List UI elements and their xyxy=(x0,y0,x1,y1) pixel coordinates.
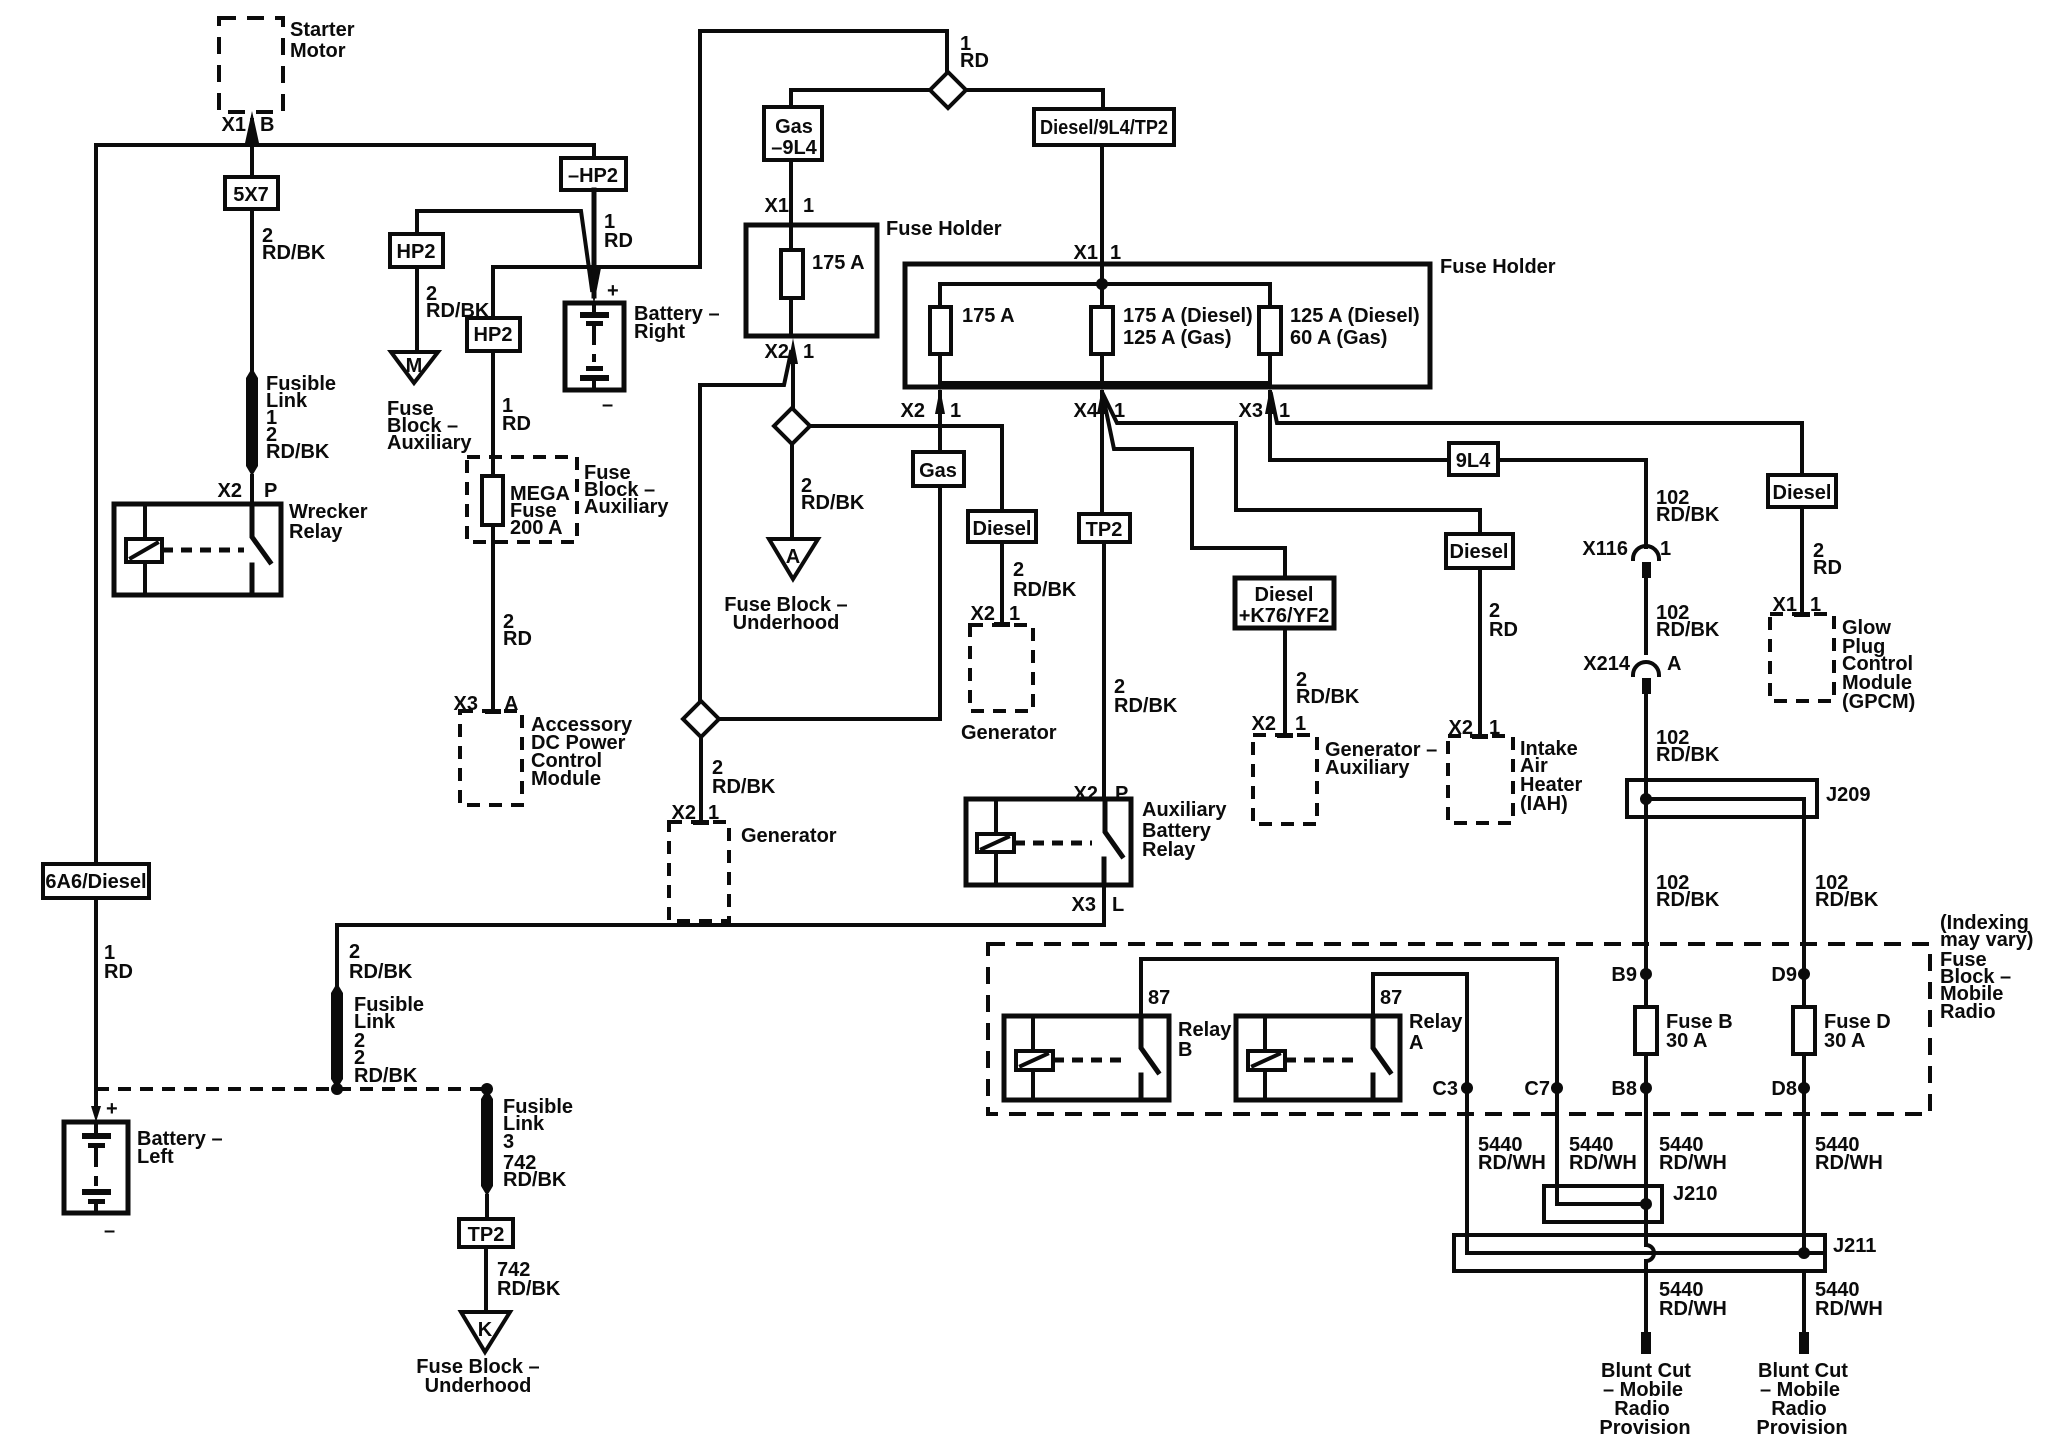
svg-text:1: 1 xyxy=(803,341,814,363)
svg-text:Diesel: Diesel xyxy=(1450,541,1509,563)
fuse 175 A Diesel / 125 A Gas middle xyxy=(1091,305,1253,387)
svg-text:Relay: Relay xyxy=(1178,1019,1232,1041)
svg-text:175 A: 175 A xyxy=(962,305,1015,327)
svg-text:HP2: HP2 xyxy=(474,324,513,346)
svg-text:–HP2: –HP2 xyxy=(568,165,618,187)
svg-text:Fuse Holder: Fuse Holder xyxy=(886,218,1002,240)
svg-text:Relay: Relay xyxy=(289,521,343,543)
svg-text:J210: J210 xyxy=(1673,1183,1718,1205)
fusible link 2 xyxy=(331,983,424,1089)
wire label 2 RD/BK xyxy=(349,941,413,983)
module Glow Plug Control Module GPCM xyxy=(1770,612,1915,713)
wire HP2 top to battery right positive xyxy=(417,211,592,290)
svg-text:B9: B9 xyxy=(1611,964,1637,986)
svg-text:125 A (Gas): 125 A (Gas) xyxy=(1123,327,1232,349)
wire from bus down to 5X7 xyxy=(250,145,254,177)
wire X4 branch to Diesel intake air heater xyxy=(1103,394,1480,534)
node X1 1 of big fuse holder xyxy=(1074,242,1122,264)
wire 2 RD/BK diamond to generator lower xyxy=(701,737,776,820)
node X3 A xyxy=(454,693,519,715)
svg-text:Diesel/9L4/TP2: Diesel/9L4/TP2 xyxy=(1040,117,1168,139)
connector TP2 xyxy=(1079,514,1130,542)
wire branch jog from X2 pin left to riser xyxy=(700,352,791,702)
fuse holder big with three fuses xyxy=(905,256,1556,387)
node splice diamond top right xyxy=(930,33,989,108)
svg-text:RD/BK: RD/BK xyxy=(1013,579,1077,601)
node battery-left positive arrow xyxy=(91,1106,101,1122)
svg-text:B: B xyxy=(260,114,274,136)
module Accessory DC Power Control Module xyxy=(460,709,633,805)
wire 2 RD Diesel to IAH xyxy=(1480,568,1518,736)
terminal triangle A Fuse Block Underhood xyxy=(724,539,847,634)
svg-text:K: K xyxy=(478,1319,493,1341)
svg-text:30 A: 30 A xyxy=(1824,1030,1866,1052)
svg-text:B: B xyxy=(1178,1039,1192,1061)
svg-text:X116: X116 xyxy=(1582,538,1628,560)
svg-text:9L4: 9L4 xyxy=(1456,450,1491,472)
connector 5X7 xyxy=(225,177,278,209)
svg-text:87: 87 xyxy=(1148,987,1170,1009)
svg-text:+: + xyxy=(106,1098,118,1120)
svg-text:X214: X214 xyxy=(1583,653,1631,675)
wire 2 RD/BK from 5X7 to fusible link 1 xyxy=(252,209,326,372)
svg-text:–9L4: –9L4 xyxy=(771,137,817,159)
wire fuse holder X2 pin with up arrow down to diamond xyxy=(788,338,798,408)
svg-text:B8: B8 xyxy=(1611,1078,1637,1100)
wire 2 RD from MEGA fuse to module xyxy=(493,525,532,711)
node C7 xyxy=(1524,1078,1563,1100)
splice J210 xyxy=(1544,1183,1718,1222)
svg-text:RD/WH: RD/WH xyxy=(1569,1152,1637,1174)
svg-text:6A6/Diesel: 6A6/Diesel xyxy=(45,871,146,893)
svg-text:Relay: Relay xyxy=(1409,1011,1463,1033)
wire 102 RD/BK J209 to B9 xyxy=(1646,817,1720,974)
connector HP2 first xyxy=(390,234,443,267)
svg-text:RD: RD xyxy=(1813,557,1842,579)
svg-text:Wrecker: Wrecker xyxy=(289,501,368,523)
svg-text:RD/WH: RD/WH xyxy=(1659,1152,1727,1174)
svg-text:X2: X2 xyxy=(765,341,789,363)
svg-text:Auxiliary: Auxiliary xyxy=(1325,757,1410,779)
svg-text:X4: X4 xyxy=(1074,400,1099,422)
svg-text:2: 2 xyxy=(349,941,360,963)
node junction dot on bus xyxy=(1096,278,1108,290)
wire 2 RD/BK TP2 down to auxiliary battery relay xyxy=(1104,542,1178,799)
wire relay X3 down and left to fusible link 2 xyxy=(337,885,1104,985)
svg-text:RD: RD xyxy=(1489,619,1518,641)
connector Diesel +K76/YF2 xyxy=(1235,578,1334,628)
wire starter pin riser with up arrow xyxy=(245,111,259,145)
svg-text:A: A xyxy=(786,546,800,568)
relay Relay A xyxy=(1236,1011,1463,1100)
svg-text:Left: Left xyxy=(137,1146,174,1168)
svg-text:C3: C3 xyxy=(1432,1078,1458,1100)
svg-text:P: P xyxy=(264,480,277,502)
node X1 1 of GPCM xyxy=(1773,594,1822,616)
svg-text:RD: RD xyxy=(604,230,633,252)
module Intake Air Heater IAH xyxy=(1448,734,1582,823)
wire X2 pin down through Gas to corner xyxy=(719,392,940,719)
node splice diamond left xyxy=(683,701,719,737)
svg-text:RD/WH: RD/WH xyxy=(1815,1152,1883,1174)
svg-text:RD/BK: RD/BK xyxy=(497,1278,561,1300)
svg-text:Auxiliary: Auxiliary xyxy=(584,496,669,518)
svg-text:RD/BK: RD/BK xyxy=(1114,695,1178,717)
node junction dot fusible link 3 top xyxy=(481,1083,493,1095)
fuse Fuse D 30 A xyxy=(1793,974,1891,1088)
svg-text:X1: X1 xyxy=(222,114,246,136)
wire 5440 RD/WH J211 to blunt cut right xyxy=(1804,1271,1883,1332)
node X2 1 pin of big fuse holder xyxy=(901,388,962,422)
wire 102 RD/BK X116 to X214 xyxy=(1646,578,1720,653)
node X2 1 of fuse holder xyxy=(765,341,815,363)
svg-text:Auxiliary: Auxiliary xyxy=(1142,799,1227,821)
starter motor dashed box xyxy=(219,18,355,112)
svg-text:(IAH): (IAH) xyxy=(1520,793,1568,815)
svg-text:Generator: Generator xyxy=(741,825,837,847)
wire 1 RD from -HP2 to battery right positive xyxy=(594,190,633,296)
connector Diesel/9L4/TP2 xyxy=(1034,109,1174,145)
connector inline X214 pin A xyxy=(1583,653,1681,694)
wire 2 RD/BK Diesel to generator xyxy=(1002,542,1077,623)
node X2 1 of generator auxiliary xyxy=(1252,713,1307,735)
svg-text:175 A: 175 A xyxy=(812,252,865,274)
svg-text:L: L xyxy=(1112,894,1124,916)
svg-text:RD/BK: RD/BK xyxy=(503,1169,567,1191)
svg-text:Diesel: Diesel xyxy=(1773,482,1832,504)
svg-text:Gas: Gas xyxy=(775,116,813,138)
svg-text:TP2: TP2 xyxy=(468,1224,505,1246)
svg-text:Underhood: Underhood xyxy=(733,612,840,634)
connector Diesel intake air heater branch xyxy=(1446,534,1513,568)
svg-text:1: 1 xyxy=(803,195,814,217)
wire 742 RD/BK TP2 to triangle K xyxy=(486,1247,561,1312)
svg-text:Gas: Gas xyxy=(919,460,957,482)
module Generator - Auxiliary xyxy=(1253,733,1437,824)
fuse holder first with 175 A fuse xyxy=(746,218,1002,336)
svg-text:J209: J209 xyxy=(1826,784,1871,806)
wire 5440 RD/WH D8 down to J211 xyxy=(1804,1088,1883,1235)
svg-text:RD/BK: RD/BK xyxy=(354,1065,418,1087)
wire X4 branch to Diesel +K76/YF2 xyxy=(1103,396,1285,578)
svg-text:1: 1 xyxy=(950,400,961,422)
svg-text:1: 1 xyxy=(1660,538,1671,560)
wire Gas -9L4 down to fuse holder xyxy=(789,160,793,225)
node D9 xyxy=(1771,964,1810,986)
wire 2 RD/BK from HP2 to triangle M xyxy=(417,267,490,352)
svg-text:RD: RD xyxy=(503,628,532,650)
svg-text:X1: X1 xyxy=(1074,242,1098,264)
svg-text:Diesel: Diesel xyxy=(973,518,1032,540)
terminal triangle K Fuse Block Underhood xyxy=(416,1312,539,1397)
node X2 1 of IAH xyxy=(1449,717,1501,739)
svg-text:Module: Module xyxy=(531,768,601,790)
svg-text:Underhood: Underhood xyxy=(425,1375,532,1397)
svg-text:Radio: Radio xyxy=(1940,1001,1996,1023)
connector 6A6/Diesel xyxy=(43,864,149,898)
connector Diesel glow plug branch xyxy=(1768,475,1836,507)
splice J209 xyxy=(1627,780,1871,817)
terminal triangle M Fuse Block Auxiliary xyxy=(387,352,472,454)
svg-text:2: 2 xyxy=(1013,559,1024,581)
connector -HP2 xyxy=(561,158,626,190)
svg-text:Motor: Motor xyxy=(290,40,346,62)
fuse MEGA Fuse 200 A in Fuse Block Auxiliary xyxy=(467,457,669,542)
wire 5440 RD/WH C3 down to J211 xyxy=(1467,1088,1546,1235)
wire diamond to Gas -9L4 xyxy=(791,90,930,107)
node D8 xyxy=(1771,1078,1810,1100)
node C3 xyxy=(1432,1078,1473,1100)
svg-text:175 A (Diesel): 175 A (Diesel) xyxy=(1123,305,1253,327)
svg-text:RD/BK: RD/BK xyxy=(266,441,330,463)
svg-text:Provision: Provision xyxy=(1756,1417,1847,1439)
wire 2 RD/BK to generator auxiliary xyxy=(1285,628,1360,735)
svg-text:Right: Right xyxy=(634,321,685,343)
splice J211 xyxy=(1454,1222,1876,1271)
node splice diamond below fuse holder xyxy=(774,408,810,444)
svg-text:Relay: Relay xyxy=(1142,839,1196,861)
svg-text:200 A: 200 A xyxy=(510,517,563,539)
svg-text:X2: X2 xyxy=(901,400,925,422)
svg-text:RD/WH: RD/WH xyxy=(1478,1152,1546,1174)
node B9 xyxy=(1611,964,1652,986)
wire X4 pin down to TP2 xyxy=(1100,392,1104,514)
connector Diesel first xyxy=(968,511,1036,542)
svg-text:Auxiliary: Auxiliary xyxy=(387,432,472,454)
node X3 1 pin of big fuse holder xyxy=(1239,388,1291,422)
relay Auxiliary Battery Relay xyxy=(966,799,1227,885)
connector 9L4 xyxy=(1449,443,1498,475)
node X3 L of auxiliary battery relay xyxy=(1072,894,1125,916)
terminal blunt cut left Mobile Radio Provision xyxy=(1599,1332,1691,1439)
svg-text:87: 87 xyxy=(1380,987,1402,1009)
svg-text:5X7: 5X7 xyxy=(233,184,269,206)
wire relay A 87 to C3 xyxy=(1373,974,1467,1235)
connector inline X116 pin 1 xyxy=(1582,538,1671,578)
svg-text:Diesel: Diesel xyxy=(1255,584,1314,606)
svg-text:Generator: Generator xyxy=(961,722,1057,744)
wire 5440 RD/WH B8 down to J210 xyxy=(1646,1088,1727,1186)
svg-text:RD/WH: RD/WH xyxy=(1815,1298,1883,1320)
svg-text:RD: RD xyxy=(104,961,133,983)
relay Relay B xyxy=(1004,1016,1232,1100)
terminal blunt cut right Mobile Radio Provision xyxy=(1756,1332,1848,1439)
wire -HP2 riser from main bus xyxy=(592,145,596,158)
svg-text:X2: X2 xyxy=(1252,713,1276,735)
svg-text:RD/BK: RD/BK xyxy=(1296,686,1360,708)
fusible link 1 xyxy=(246,368,336,476)
svg-text:125 A (Diesel): 125 A (Diesel) xyxy=(1290,305,1420,327)
svg-text:M: M xyxy=(406,355,423,377)
svg-text:1: 1 xyxy=(1110,242,1121,264)
wire Diesel/9L4/TP2 down to big fuse holder xyxy=(1100,145,1104,264)
svg-text:+: + xyxy=(607,280,619,302)
relay Wrecker Relay xyxy=(114,501,368,595)
svg-text:may vary): may vary) xyxy=(1940,929,2033,951)
connector Gas -9L4 xyxy=(764,107,822,160)
svg-text:RD/BK: RD/BK xyxy=(349,961,413,983)
wire dashed jumper battery-left to fusible links xyxy=(96,1087,487,1091)
svg-text:RD/BK: RD/BK xyxy=(262,242,326,264)
wire 2 RD Diesel to GPCM xyxy=(1802,507,1842,614)
battery Battery - Left xyxy=(64,1098,223,1242)
wire left riser from main bus down to Battery Left xyxy=(94,145,98,1108)
wire label 1 RD xyxy=(104,942,133,983)
connector Gas xyxy=(913,452,964,486)
wire HP2 second riser to bus corner and top link to diamond xyxy=(493,31,947,318)
node X1 1 of fuse holder xyxy=(765,195,815,217)
svg-text:1: 1 xyxy=(1009,603,1020,625)
svg-text:RD/BK: RD/BK xyxy=(712,776,776,798)
svg-text:RD: RD xyxy=(502,413,531,435)
wire 1 RD from HP2 to MEGA fuse xyxy=(493,351,531,476)
fusible link 3 xyxy=(481,1089,573,1196)
svg-text:RD: RD xyxy=(960,50,989,72)
fuse Fuse B 30 A xyxy=(1635,974,1733,1088)
svg-text:X3: X3 xyxy=(1239,400,1263,422)
wire X1 through bus junction to fuse 2 xyxy=(1100,264,1104,307)
wire main horizontal bus from battery-left riser to -HP2 xyxy=(96,143,592,147)
svg-text:Provision: Provision xyxy=(1599,1417,1690,1439)
node X2 1 xyxy=(672,802,720,824)
svg-text:RD/WH: RD/WH xyxy=(1659,1298,1727,1320)
node X4 1 pin of big fuse holder xyxy=(1074,388,1126,422)
node battery-right positive arrow xyxy=(587,268,601,304)
svg-text:Fuse Holder: Fuse Holder xyxy=(1440,256,1556,278)
svg-text:A: A xyxy=(1409,1032,1423,1054)
wire 102 RD/BK X214 to J209 xyxy=(1646,694,1720,780)
svg-text:(GPCM): (GPCM) xyxy=(1842,691,1915,713)
svg-text:Starter: Starter xyxy=(290,19,355,41)
svg-text:RD/BK: RD/BK xyxy=(1656,889,1720,911)
svg-text:RD/BK: RD/BK xyxy=(1656,619,1720,641)
svg-text:3: 3 xyxy=(503,1131,514,1153)
module Generator xyxy=(961,622,1057,744)
node X2 P of auxiliary battery relay xyxy=(1074,783,1129,805)
svg-text:RD/BK: RD/BK xyxy=(1656,504,1720,526)
svg-text:1: 1 xyxy=(1279,400,1290,422)
fuse 175 A left xyxy=(930,305,1015,387)
wire 5440 RD/WH C7 down to J210 xyxy=(1557,1088,1637,1186)
svg-text:RD/BK: RD/BK xyxy=(801,492,865,514)
svg-text:1: 1 xyxy=(1295,713,1306,735)
svg-text:D9: D9 xyxy=(1771,964,1797,986)
svg-text:RD/BK: RD/BK xyxy=(1656,744,1720,766)
connector HP2 second xyxy=(467,318,520,351)
fuse block Fuse Block - Mobile Radio dashed enclosure xyxy=(988,912,2033,1114)
svg-text:60 A (Gas): 60 A (Gas) xyxy=(1290,327,1387,349)
svg-text:X2: X2 xyxy=(218,480,242,502)
fuse 125 A Diesel / 60 A Gas right xyxy=(1259,305,1420,387)
svg-text:X1: X1 xyxy=(765,195,789,217)
svg-text:30 A: 30 A xyxy=(1666,1030,1708,1052)
svg-text:A: A xyxy=(1667,653,1681,675)
node X1 B of starter motor xyxy=(222,114,275,136)
wire fusible link 1 to wrecker relay xyxy=(250,476,254,504)
wire fusible link 3 to TP2 xyxy=(485,1196,489,1219)
svg-text:C7: C7 xyxy=(1524,1078,1550,1100)
node X2 P of wrecker relay xyxy=(218,480,278,502)
wire X3 branch to Diesel glow plug xyxy=(1271,394,1802,475)
svg-text:X3: X3 xyxy=(1072,894,1096,916)
svg-text:+K76/YF2: +K76/YF2 xyxy=(1239,605,1330,627)
node X2 1 xyxy=(971,603,1021,625)
svg-text:J211: J211 xyxy=(1833,1235,1876,1257)
battery Battery - Right xyxy=(565,280,720,416)
wire 5440 RD/WH J211 to blunt cut left xyxy=(1646,1271,1727,1332)
wire 9L4 to X116 with 102 RD/BK label xyxy=(1498,460,1720,547)
wire relay B 87 to C7 xyxy=(1141,959,1557,1186)
node junction dot fusible link 2 to dashed jumper xyxy=(331,1083,343,1095)
svg-text:TP2: TP2 xyxy=(1086,519,1123,541)
wire 102 RD/BK J209 to D9 xyxy=(1804,817,1879,974)
wire X3 branch to 9L4 xyxy=(1270,392,1449,460)
svg-text:RD/BK: RD/BK xyxy=(1815,889,1879,911)
module Generator lower left xyxy=(669,820,837,921)
svg-text:–: – xyxy=(602,394,613,416)
svg-text:D8: D8 xyxy=(1771,1078,1797,1100)
svg-text:X2: X2 xyxy=(971,603,995,625)
svg-text:–: – xyxy=(104,1220,115,1242)
wire diamond right to Gas riser and Diesel branch xyxy=(810,426,1002,511)
svg-text:HP2: HP2 xyxy=(397,241,436,263)
wire 2 RD/BK diamond down to triangle A xyxy=(792,444,865,539)
wire diamond to Diesel/9L4/TP2 xyxy=(966,90,1103,109)
connector TP2 lower xyxy=(459,1219,513,1247)
node B8 xyxy=(1611,1078,1652,1100)
